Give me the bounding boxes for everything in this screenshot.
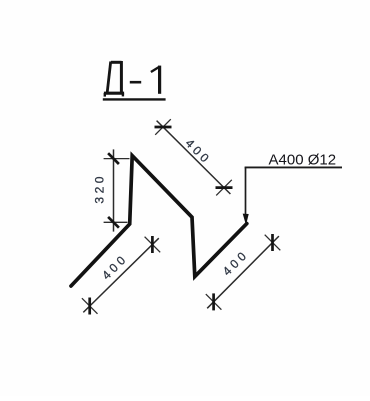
- svg-text:A400 Ø12: A400 Ø12: [269, 151, 337, 168]
- extension stub lower: [82, 298, 98, 314]
- dimension line: [83, 238, 159, 312]
- tick bottom: [108, 217, 119, 228]
- dimension line: [113, 149, 115, 231]
- extension line top: [104, 158, 130, 160]
- svg-text:320: 320: [93, 173, 107, 204]
- dimension 400 (lower-right diagonal): [206, 234, 280, 310]
- tick upper: [271, 234, 274, 251]
- extension stub lower: [206, 294, 222, 310]
- tick upper: [155, 126, 172, 129]
- title dash: [130, 81, 141, 84]
- tick upper: [151, 236, 154, 253]
- extension stub upper: [155, 119, 171, 135]
- extension stub upper: [145, 237, 161, 253]
- tick lower: [212, 293, 215, 310]
- leader line vertical: [245, 167, 247, 214]
- title digit 1: [151, 66, 160, 94]
- extension stub lower: [216, 180, 232, 196]
- leader shelf: [245, 166, 342, 168]
- dimension line: [207, 236, 279, 308]
- tick lower: [88, 298, 91, 315]
- tick top: [108, 153, 119, 164]
- extension stub upper: [265, 235, 281, 251]
- title underline: [103, 98, 166, 100]
- dimension line: [157, 121, 231, 194]
- tick lower: [216, 186, 233, 189]
- title Д-1 glyph Д: [104, 61, 124, 97]
- rebar bent bar: [71, 156, 247, 286]
- dimension 400 (top diagonal): [155, 119, 233, 195]
- extension line bottom: [104, 221, 128, 223]
- dimension 320 (left vertical): [93, 149, 130, 231]
- dimension 400 (lower-left diagonal): [82, 236, 160, 315]
- leader arrowhead: [243, 214, 249, 226]
